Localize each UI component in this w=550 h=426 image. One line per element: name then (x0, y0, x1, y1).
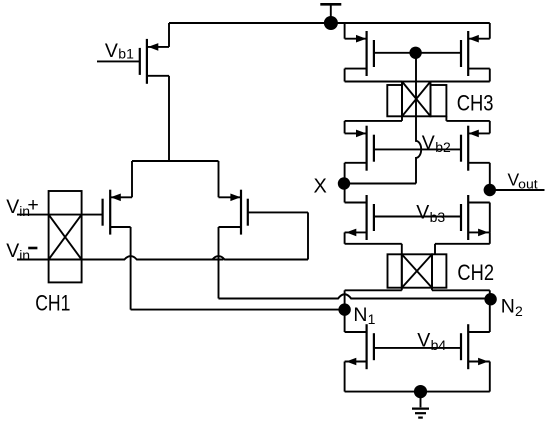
transistor M5 cascode PMOS left (345, 126, 374, 184)
power supply VDD symbol (320, 4, 341, 17)
wire M7 source to CH2 (345, 244, 402, 255)
svg-text:2: 2 (515, 303, 523, 319)
transistor M3 mirror PMOS left (345, 23, 374, 82)
wire CH3 to M5 source (345, 116, 402, 133)
wire Vb4 gate line (374, 347, 461, 349)
junction node N2 (484, 293, 496, 305)
label X (314, 175, 327, 197)
svg-text:b1: b1 (118, 46, 134, 62)
wire mirror gates (374, 52, 461, 54)
label Vb3 (416, 202, 445, 225)
transistor M7 cascode NMOS left (345, 184, 374, 244)
label Vb2 (422, 132, 451, 155)
label Vin- (6, 240, 37, 263)
svg-text:b4: b4 (431, 337, 447, 353)
ground symbol (412, 392, 429, 418)
label Vb1 (105, 40, 134, 62)
chopper CH2 (388, 254, 447, 287)
junction node N1 (338, 303, 350, 315)
svg-text:X: X (314, 175, 327, 197)
svg-text:V: V (6, 196, 19, 218)
svg-text:V: V (417, 330, 430, 352)
wire bottom rail (345, 391, 490, 393)
wire M3 drain to CH3 (345, 81, 402, 83)
svg-text:V: V (416, 202, 429, 224)
chopper CH3 (387, 82, 446, 117)
svg-text:out: out (518, 177, 538, 191)
wire Vout (490, 189, 545, 191)
wire node X to center line (344, 183, 416, 185)
wire CH2 to node N2 (432, 288, 490, 299)
junction node X (338, 177, 350, 189)
svg-text:N: N (501, 296, 515, 318)
transistor M4 mirror PMOS right (461, 23, 490, 82)
wire Vin- to M2 gate with jumps (17, 212, 308, 259)
svg-text:V: V (422, 132, 435, 154)
wire M4 drain to CH3 (431, 81, 490, 83)
svg-text:N: N (353, 304, 367, 326)
junction mirror gate node (409, 47, 421, 59)
wire M2 drain to N2 with jump over N1 stub (219, 227, 490, 299)
transistor M8 cascode NMOS right (461, 195, 490, 244)
wire gate node down through CH3 with jump over Vb2 (416, 53, 421, 184)
wire tail node (132, 161, 219, 197)
label N2 (501, 296, 523, 320)
wire CH3 to M6 source (446, 116, 489, 133)
wire Vin+ to M1 gate (17, 214, 103, 216)
transistor M9 bias NMOS left (345, 310, 374, 392)
transistor M1 input PMOS left (103, 190, 132, 235)
junction at ground (414, 385, 427, 398)
svg-text:b3: b3 (430, 209, 446, 225)
svg-text:b2: b2 (435, 139, 451, 155)
junction at supply (324, 16, 338, 30)
wire M8 source to CH2 (435, 244, 490, 255)
transistor M2 input PMOS right (219, 190, 248, 235)
svg-text:V: V (6, 240, 19, 262)
svg-text:CH2: CH2 (457, 260, 494, 285)
svg-text:CH1: CH1 (35, 291, 70, 316)
label CH3 (457, 91, 494, 116)
wire top supply rail (169, 22, 490, 24)
wire Vb3 gate line (374, 216, 461, 218)
label CH1 (35, 291, 70, 316)
label Vin+ (6, 194, 38, 219)
transistor Vb1 PMOS current source (97, 23, 169, 161)
label Vout (508, 169, 539, 191)
label N1 (353, 304, 375, 327)
svg-text:+: + (27, 194, 38, 216)
transistor M10 bias NMOS right (461, 299, 490, 392)
wire M1 drain to N1 (131, 227, 345, 310)
svg-text:V: V (105, 40, 118, 62)
svg-text:1: 1 (368, 311, 376, 327)
label CH2 (457, 260, 494, 285)
label Vb4 (417, 330, 446, 353)
chopper CH1 (49, 191, 82, 282)
svg-text:CH3: CH3 (457, 91, 494, 116)
junction node Vout (484, 184, 496, 196)
wire CH2 to node N1 (345, 288, 402, 310)
wire Vb2 gate line (374, 148, 461, 150)
transistor M6 cascode PMOS right (461, 126, 490, 190)
